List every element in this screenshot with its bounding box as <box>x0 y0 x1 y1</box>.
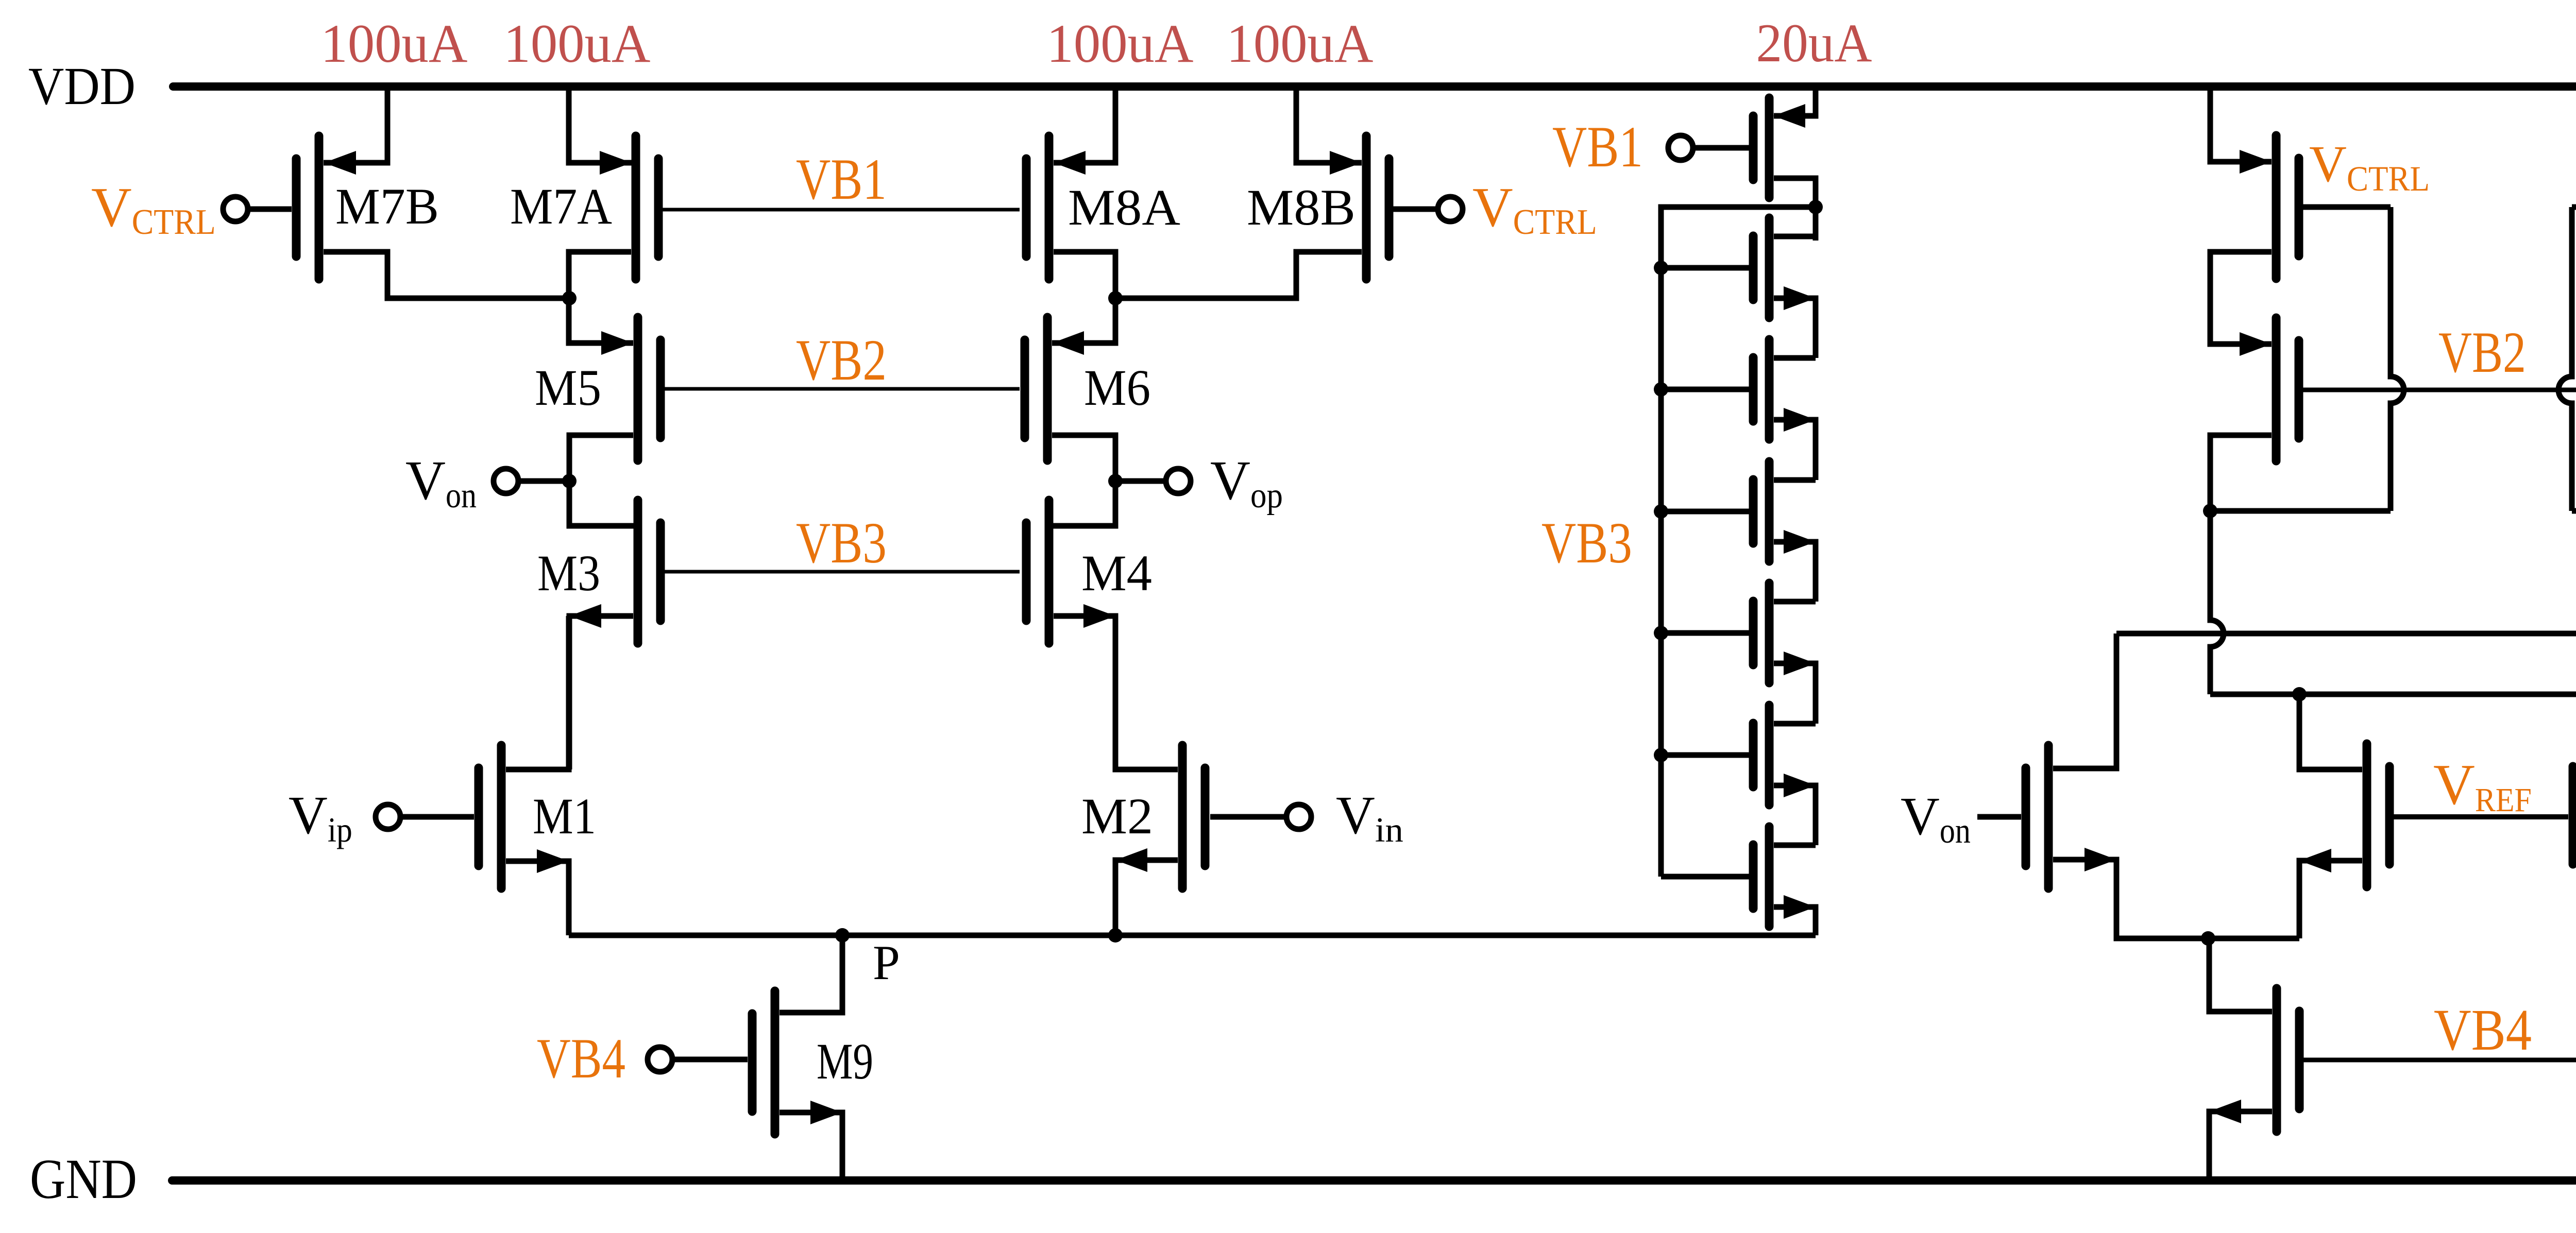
svg-text:VB3: VB3 <box>796 511 887 575</box>
svg-text:100uA: 100uA <box>1227 13 1374 74</box>
svg-text:P: P <box>873 935 900 990</box>
svg-text:VB4: VB4 <box>2434 997 2532 1063</box>
svg-text:M2: M2 <box>1081 787 1153 845</box>
svg-text:M4: M4 <box>1081 544 1152 602</box>
svg-text:M9: M9 <box>817 1033 873 1090</box>
svg-text:VB2: VB2 <box>2438 320 2526 385</box>
svg-text:VB4: VB4 <box>537 1027 625 1090</box>
svg-text:20uA: 20uA <box>1756 13 1872 73</box>
svg-text:M8A: M8A <box>1068 179 1180 236</box>
svg-text:M8B: M8B <box>1247 179 1355 236</box>
svg-text:VB3: VB3 <box>1541 511 1632 575</box>
svg-text:M1: M1 <box>533 787 596 845</box>
svg-text:M7B: M7B <box>335 178 439 235</box>
svg-text:VB2: VB2 <box>796 328 887 392</box>
svg-text:M3: M3 <box>537 544 600 602</box>
svg-text:GND: GND <box>30 1148 137 1210</box>
svg-text:VDD: VDD <box>28 57 135 116</box>
svg-text:100uA: 100uA <box>321 13 468 74</box>
svg-text:100uA: 100uA <box>1047 13 1194 74</box>
svg-text:M6: M6 <box>1084 359 1150 416</box>
svg-text:M7A: M7A <box>510 178 612 235</box>
svg-text:VB1: VB1 <box>796 147 887 212</box>
svg-text:100uA: 100uA <box>504 13 651 74</box>
svg-text:M5: M5 <box>535 359 601 416</box>
svg-text:VB1: VB1 <box>1552 115 1643 179</box>
